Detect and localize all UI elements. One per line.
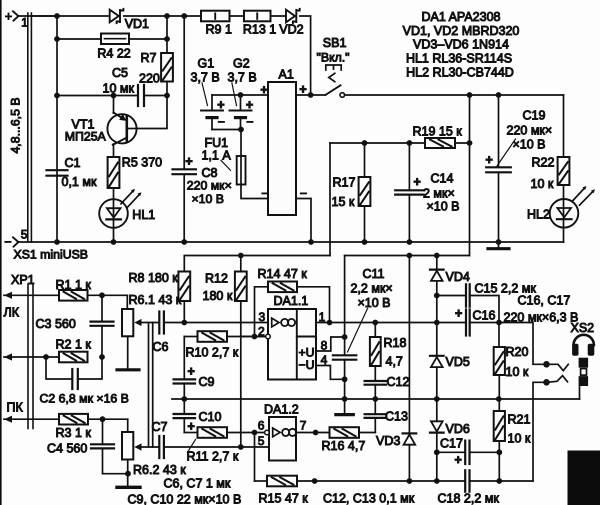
capacitor C4 560 [102,419,104,444]
svg-text:XS2: XS2 [571,321,595,335]
diode VD3 [408,256,410,434]
battery G2 3,7 V [240,95,242,111]
wire A1 plus output to SB1 node [296,94,311,96]
svg-text:R18: R18 [384,336,407,350]
svg-text:C11: C11 [363,267,385,281]
wire to lower jack contact [533,382,547,481]
resistor R2 1k [59,352,88,363]
svg-text:C9: C9 [199,375,215,389]
svg-text:4,7: 4,7 [386,355,403,369]
svg-text:R6.2 43 к: R6.2 43 к [133,463,186,477]
svg-text:8: 8 [321,338,328,352]
svg-text:G1: G1 [198,57,215,71]
leader line G1 [202,83,208,106]
svg-text:SB1: SB1 [323,36,347,50]
DA1.2 pin 6 input with inversion circle [265,430,270,435]
DA1.2 pin 7 output [296,432,330,434]
svg-text:R8 180 к: R8 180 к [129,271,179,285]
svg-text:R15 47 к: R15 47 к [259,492,309,505]
capacitor C16 220mk [437,322,466,324]
leader line R11 [188,440,196,453]
wire vertical column x167 VD1 cathode node [166,16,168,53]
svg-text:+: + [260,83,267,97]
svg-text:1,1 А: 1,1 А [202,149,232,163]
resistor R5 370 [108,157,120,188]
svg-text:15 к: 15 к [332,195,355,209]
wire R9 to R13 [230,15,245,17]
svg-text:XS1 miniUSB: XS1 miniUSB [14,248,89,262]
capacitor C11 2,2mk [333,354,356,356]
capacitor C6 1mk [158,312,160,334]
node top wire junctions [54,13,60,19]
capacitor C14 2mk x10V [408,143,410,190]
svg-text:×10 В: ×10 В [192,192,224,206]
svg-text:C18 2,2 мк: C18 2,2 мк [438,492,500,505]
wire +V top rail y16 [31,15,108,17]
capacitor C7 1mk [158,436,160,458]
svg-text:3: 3 [259,310,266,324]
svg-text:R6.1 43 к: R6.1 43 к [129,293,182,307]
converter module A1 [268,82,296,215]
XP1 pin LK arrow [4,294,59,296]
svg-text:4: 4 [321,353,328,367]
svg-text:R11 2,7 к: R11 2,7 к [187,450,239,464]
svg-text:R9 1: R9 1 [206,23,232,37]
svg-text:1: 1 [21,16,28,30]
wire main ground rail y242 [18,241,564,243]
op-amp DA1.2 [269,417,296,461]
potentiometer R6.1 43k [126,295,128,309]
svg-text:HL1: HL1 [132,208,155,222]
wire bias feed column x330 [329,143,331,256]
svg-text:4,8...6,5 В: 4,8...6,5 В [9,97,23,153]
LED HL1 [99,199,128,228]
svg-text:180 к: 180 к [203,289,233,303]
svg-text:0,1 мк: 0,1 мк [62,175,97,189]
svg-text:HL2 RL30-CB744D: HL2 RL30-CB744D [406,65,514,79]
wire to upper jack contact [499,323,547,365]
wire R5 to HL1 [113,188,115,199]
SB1 actuator symbol [326,65,341,70]
svg-text:220: 220 [139,72,160,86]
svg-text:×10 В: ×10 В [358,296,391,310]
svg-text:+: + [185,154,192,168]
svg-text:R21: R21 [508,413,531,427]
svg-text:+: + [217,98,224,112]
svg-text:−: − [4,235,11,249]
svg-text:DA1.2: DA1.2 [264,402,299,416]
wire R13 to VD2 [271,15,287,17]
svg-text:+: + [5,9,12,23]
svg-text:ПК: ПК [7,401,24,415]
svg-text:C1: C1 [65,156,81,170]
R6.2 wiper arrow [141,446,160,448]
svg-text:C17: C17 [440,437,463,451]
svg-text:6: 6 [258,418,265,432]
jack upper contact spring [547,364,569,370]
svg-text:HL1 RL36-SR114S: HL1 RL36-SR114S [406,52,512,66]
wire +V rail2 y255.5 [345,255,470,257]
svg-text:C2 6,8 мк ×16 В: C2 6,8 мк ×16 В [40,391,129,405]
op-amp DA1.1 [268,309,316,380]
wire R1 to R6.1 [88,294,128,296]
svg-text:3,7 В: 3,7 В [191,71,220,85]
svg-text:R16 4,7: R16 4,7 [322,439,366,453]
svg-text:10 мк: 10 мк [103,81,135,95]
svg-text:VD1: VD1 [125,17,149,31]
wire dual-pot link verticals [148,323,150,448]
jack body [579,358,589,368]
svg-text:МП25А: МП25А [65,130,107,144]
wire R7 to C5 node [166,82,168,96]
connector XS1 miniUSB boundary [27,13,29,242]
wire jack sleeve to ground rail [579,386,581,399]
capacitor C19 220mk x10V [498,95,500,167]
svg-text:R22: R22 [532,155,555,169]
wire A1 minus output down to ground rail [296,199,311,243]
diode VD6 [436,399,438,421]
fuse FU1 1,1 A [240,156,242,185]
svg-text:G2: G2 [233,57,250,71]
wire ground rail y399 [172,398,580,400]
leader line G2 [232,83,237,106]
svg-text:+: + [486,153,493,167]
svg-text:10 к: 10 к [531,177,554,191]
svg-text:2,2 мк×: 2,2 мк× [351,281,393,295]
svg-text:C6: C6 [153,340,169,354]
svg-text:10 к: 10 к [508,432,531,446]
svg-text:DA1 APA2308: DA1 APA2308 [422,10,501,24]
resistor R18 4,7 [374,323,376,338]
capacitor C15 2,2mk [437,295,466,297]
XP1 pin middle arrow [4,356,59,358]
wire C6 to DA1.1 pin3 [164,322,268,324]
scan artifact left edge [0,0,2,505]
XP1 pin PK arrow [4,418,59,420]
XS1 pin 5 symbol with - label [13,237,18,246]
capacitor C1 0,1 mk [47,169,68,171]
svg-text:VD6: VD6 [446,422,470,436]
svg-text:+: + [246,98,253,112]
resistor R10 2,7k [184,336,197,338]
resistor R16 4,7 [330,427,360,438]
wire VD2 to corner and down to SB1 node [300,16,311,95]
svg-text:R12: R12 [205,272,228,286]
R6.1 wiper arrow [141,322,160,324]
svg-text:C14: C14 [431,172,454,186]
capacitor C3 560 [101,295,103,321]
resistor R13 1 [244,11,271,22]
resistor R21 10k [498,399,500,411]
svg-text:−: − [218,115,225,129]
battery G1 3,7 V [211,95,213,111]
svg-text:+: + [455,306,462,320]
svg-text:+: + [414,175,421,189]
DA1.1 pin 8 supply [316,337,345,351]
svg-text:5: 5 [258,434,265,448]
resistor R11 2,7k [184,432,197,434]
ground symbol below rail x344.6 [344,399,346,415]
transistor VT1 MP25A [107,114,136,143]
svg-text:×10 В: ×10 В [513,138,546,152]
DA1.1 pin 1 output [316,322,437,324]
svg-text:C9, C10 22 мк×10 В: C9, C10 22 мк×10 В [128,492,242,505]
scan artifact bottom-right corner [568,451,600,505]
potentiometer R6.2 43k [127,419,129,432]
svg-text:−: − [261,187,268,201]
wire C7 to DA1.2 pin5 [164,446,268,448]
svg-text:+: + [188,364,195,378]
svg-text:VD2: VD2 [279,23,303,37]
svg-text:220 мк×: 220 мк× [507,124,553,138]
wire +U supply column x344.6 [344,256,346,356]
svg-text:VD3–VD6 1N914: VD3–VD6 1N914 [413,38,509,52]
wire SB1 to right corner [345,94,564,96]
capacitor C13 0,1mk [374,399,376,414]
svg-text:VD4: VD4 [446,270,470,284]
node base tap [111,93,117,99]
svg-text:R1 1 к: R1 1 к [56,278,92,292]
svg-text:C3 560: C3 560 [36,317,76,331]
resistor R9 1 [201,11,230,22]
ground symbol below rail at x498.5 [498,242,500,249]
jack lower contact spring [547,376,568,383]
svg-text:C10: C10 [199,410,222,424]
diode VD5 [436,323,438,356]
diode VD4 [436,256,438,270]
svg-text:ЛК: ЛК [4,306,20,320]
resistor R1 1k [59,290,88,301]
wire bias node y143 [330,142,425,144]
wire battery top feed y95 [212,94,268,96]
svg-text:+: + [455,453,462,467]
resistor R4 22 [57,38,101,40]
diode VD2 [286,10,295,23]
svg-text:C12: C12 [387,375,410,389]
svg-text:2 мк×: 2 мк× [423,187,455,201]
svg-text:R17: R17 [333,175,356,189]
svg-text:DA1.1: DA1.1 [274,294,309,308]
capacitor C9 22mk [183,337,185,380]
resistor R22 10k [563,95,565,157]
wire +V column x469.5 down to rail2 [469,95,471,256]
connector XP1 boundary [27,284,29,429]
svg-text:C16: C16 [473,309,496,323]
svg-text:VD1, VD2 MBRD320: VD1, VD2 MBRD320 [403,24,520,38]
svg-text:1: 1 [319,310,326,324]
leader line C11 [348,309,368,353]
wire pin1 to node [18,15,57,17]
wire vertical node column x57 [56,16,58,242]
svg-text:C12, C13 0,1 мк: C12, C13 0,1 мк [323,492,415,505]
leader line FU1 [221,160,231,170]
leader line C19 [497,139,516,166]
ground symbol below R6.2 [117,486,140,489]
resistor R7 220 [161,53,173,82]
ground symbol below R6.1 [117,368,139,371]
svg-text:220 мк×: 220 мк× [187,179,232,193]
svg-text:C16, C17: C16, C17 [518,294,571,308]
capacitor C8 220mk x10V [183,16,185,169]
wire right-channel output rail y481 [315,480,466,482]
wire FU1 to A1 minus input [241,185,268,199]
svg-text:HL2: HL2 [527,208,550,222]
svg-text:×10 В: ×10 В [427,200,460,214]
wire HL2 bottom corner to ground rail [563,241,565,243]
svg-text:C13: C13 [385,410,408,424]
svg-text:R13 1: R13 1 [243,23,276,37]
svg-text:C4 560: C4 560 [47,441,87,455]
svg-text:С6, С7 1 мк: С6, С7 1 мк [164,477,231,491]
wire battery minus to FU1 [212,129,241,131]
LED HL2 [563,185,565,199]
capacitor C12 0,1mk [374,366,376,381]
svg-text:"Вкл.": "Вкл." [317,50,350,64]
resistor R20 10k [498,323,500,348]
wire VD1 to R9 [124,15,201,17]
svg-text:5: 5 [21,228,28,242]
resistor R8 180k [178,272,190,302]
resistor R12 180k [240,256,242,272]
svg-text:2: 2 [258,324,265,338]
feedback resistor R15 47k [254,433,256,482]
DA1.1 pin 2 input with inversion circle [241,336,266,338]
svg-text:−U: −U [299,358,315,372]
svg-text:A1: A1 [279,68,294,82]
svg-text:R20: R20 [506,345,529,359]
svg-text:R4 22: R4 22 [97,47,130,61]
svg-text:R19 15 к: R19 15 к [413,124,463,138]
svg-text:R10 2,7 к: R10 2,7 к [186,345,239,359]
capacitor C10 22mk [174,413,195,415]
capacitor C17 220mk [437,451,465,453]
svg-text:7: 7 [300,418,307,432]
svg-text:XP1: XP1 [11,273,35,287]
XS1 pin 1 symbol with + label [13,11,18,20]
switch SB1 Vkl [311,94,326,96]
resistor R19 15k [425,138,455,148]
wire C5 node down to collector corner [136,96,167,129]
svg-text:VD5: VD5 [446,355,470,369]
resistor R17 15k [364,143,366,177]
svg-text:R5 370: R5 370 [122,156,162,170]
wire R3 to R6.2 [88,418,128,420]
wire R2 node joints [43,354,49,360]
svg-text:R2 1 к: R2 1 к [56,337,92,351]
svg-text:−: − [246,115,253,129]
capacitor C18 2,2mk [464,470,466,491]
DA1.1 pin 4 supply [316,366,345,380]
diode VD1 [110,10,119,23]
svg-text:VD3: VD3 [376,434,400,448]
capacitor C5 10 mk [57,95,137,97]
wire bias rail3 y255.5 left [184,256,330,272]
svg-text:R14 47 к: R14 47 к [258,267,308,281]
svg-text:10 к: 10 к [506,365,529,379]
svg-text:C7: C7 [152,420,168,434]
svg-text:C5: C5 [112,66,128,80]
svg-text:R7: R7 [141,51,157,65]
resistor R3 1k [59,414,88,425]
capacitor C2 6,8mk x16V bypass [46,357,72,379]
svg-text:R3 1 к: R3 1 к [56,426,92,440]
svg-text:+: + [188,420,195,434]
svg-text:C19: C19 [523,109,546,123]
feedback resistor R14 47k [255,287,269,337]
